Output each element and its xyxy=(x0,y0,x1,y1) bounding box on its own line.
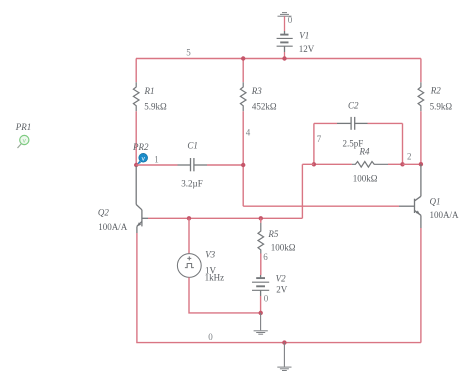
junction node 1 xyxy=(134,163,138,167)
battery V1 xyxy=(277,35,293,52)
wire R4 left xyxy=(314,163,352,165)
wire R2 bottom to node 2 xyxy=(420,111,422,164)
probe PR2 xyxy=(132,142,149,165)
ground (bottom center) xyxy=(277,367,291,370)
wire R4 right xyxy=(388,163,403,165)
resistor R1 xyxy=(133,82,139,111)
svg-text:V1: V1 xyxy=(299,30,309,40)
resistor R5 xyxy=(258,223,264,254)
wire to V2 ground xyxy=(260,313,262,330)
svg-text:3.2µF: 3.2µF xyxy=(181,178,202,188)
probe PR1 xyxy=(15,122,32,148)
resistor R3 xyxy=(240,82,246,111)
junction R5 top xyxy=(259,216,263,220)
junction R3-rail xyxy=(241,56,245,60)
transistor Q1 xyxy=(399,164,421,228)
transistor Q2 xyxy=(136,166,148,233)
svg-text:452kΩ: 452kΩ xyxy=(252,101,277,111)
wire C2 right xyxy=(368,122,403,124)
wire V3 bottom xyxy=(189,277,261,313)
ground (above V1) xyxy=(278,13,292,17)
svg-text:R5: R5 xyxy=(267,229,278,239)
wire C2 left xyxy=(314,122,337,124)
wire R1 top xyxy=(135,59,137,83)
wire Q1 emitter down xyxy=(420,228,422,343)
wire top rail node 5 xyxy=(136,58,421,60)
svg-text:R2: R2 xyxy=(430,86,441,96)
svg-text:R3: R3 xyxy=(251,86,262,96)
svg-text:2V: 2V xyxy=(276,285,288,295)
wire bottom rail node 0 xyxy=(136,342,421,344)
wire Q2 emitter down xyxy=(136,233,138,343)
feedback box left wire (node 7) xyxy=(313,123,315,164)
feedback box right wire xyxy=(402,123,404,164)
svg-text:6: 6 xyxy=(263,252,268,262)
wire Q2 base row xyxy=(148,217,302,219)
svg-text:5: 5 xyxy=(186,47,191,57)
wire V3 top xyxy=(188,218,190,253)
svg-text:100A/A: 100A/A xyxy=(430,210,460,220)
svg-text:R4: R4 xyxy=(359,147,370,157)
wire node 2 xyxy=(403,163,421,165)
wire C1 to node 4 xyxy=(207,164,243,166)
ground (below V2) xyxy=(254,331,268,334)
capacitor C2 xyxy=(337,117,368,130)
svg-text:1: 1 xyxy=(154,155,159,165)
svg-text:0: 0 xyxy=(208,332,213,342)
wire node 4 vertical xyxy=(242,111,244,206)
Q2 emitter arrow xyxy=(137,222,141,226)
resistor R4 xyxy=(352,162,388,168)
wire R5 top stub xyxy=(260,218,262,223)
junction V1-rail xyxy=(282,56,286,60)
svg-text:5.9kΩ: 5.9kΩ xyxy=(430,101,453,111)
svg-text:C2: C2 xyxy=(348,101,359,111)
junction box right xyxy=(400,162,404,166)
junction V3 top xyxy=(187,216,191,220)
svg-text:V2: V2 xyxy=(276,273,286,283)
svg-text:C1: C1 xyxy=(187,140,198,150)
wire V1 bottom stem xyxy=(284,52,286,59)
junction box left xyxy=(312,162,316,166)
wire R3 top xyxy=(242,59,244,83)
svg-text:0: 0 xyxy=(288,15,293,25)
wire node 4 horizontal to Q1 base xyxy=(243,205,399,207)
svg-text:100kΩ: 100kΩ xyxy=(271,243,296,253)
svg-text:Q2: Q2 xyxy=(98,208,109,218)
wire riser to box xyxy=(302,163,314,165)
svg-text:7: 7 xyxy=(317,134,322,144)
junction V2/V3 return xyxy=(259,311,263,315)
svg-text:PR2: PR2 xyxy=(132,142,149,152)
wire base riser up xyxy=(301,164,303,218)
capacitor C1 xyxy=(178,158,208,171)
svg-text:100kΩ: 100kΩ xyxy=(353,173,378,183)
svg-text:4: 4 xyxy=(246,128,251,138)
svg-text:0: 0 xyxy=(264,294,269,304)
wire R1 bottom to node 1 xyxy=(135,111,137,165)
wire node1 to C1 xyxy=(136,164,177,166)
svg-text:2: 2 xyxy=(407,152,412,162)
junction bottom ground xyxy=(282,340,286,344)
battery V2 xyxy=(252,275,269,296)
junction node 2 xyxy=(419,162,423,166)
svg-text:PR1: PR1 xyxy=(15,122,32,132)
wire bottom ground stem xyxy=(283,343,285,367)
source V3 xyxy=(177,254,201,278)
svg-text:Q1: Q1 xyxy=(430,196,441,206)
resistor R2 xyxy=(418,82,424,111)
wire V1 top stem xyxy=(284,16,286,31)
Q1 emitter arrow xyxy=(416,211,420,215)
wire R2 top xyxy=(420,59,422,83)
wire V2 bottom xyxy=(260,296,262,313)
svg-text:R1: R1 xyxy=(144,86,155,96)
junction node4-C1 xyxy=(241,163,245,167)
svg-text:V3: V3 xyxy=(205,250,215,260)
wire node 6 xyxy=(260,253,262,275)
svg-text:5.9kΩ: 5.9kΩ xyxy=(144,101,167,111)
svg-text:12V: 12V xyxy=(299,44,315,54)
svg-text:100A/A: 100A/A xyxy=(98,222,128,232)
svg-text:1kHz: 1kHz xyxy=(205,273,225,283)
